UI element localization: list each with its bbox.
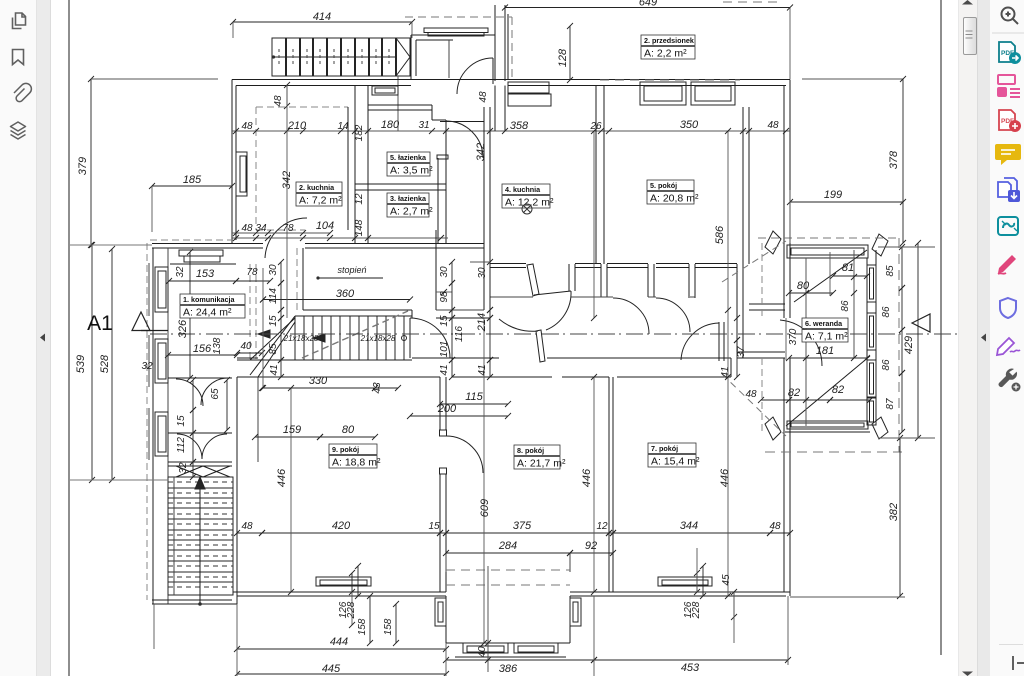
- svg-text:228: 228: [691, 601, 702, 619]
- svg-text:98: 98: [439, 291, 450, 303]
- vertical dim x484 609: [483, 318, 485, 643]
- west wing bottom wall: [152, 599, 232, 601]
- corridor top wall band y243-248: [152, 243, 263, 245]
- vertical ext x263: [262, 268, 264, 388]
- svg-text:86: 86: [840, 300, 851, 312]
- svg-text:2. kuchnia: 2. kuchnia: [299, 183, 335, 192]
- kuchnia2 door arc: [265, 218, 307, 258]
- roof overhang dash right/bottom: [765, 451, 902, 453]
- komunikacja top boundary y264: [170, 263, 236, 265]
- west window 2: [155, 339, 168, 383]
- svg-text:586: 586: [714, 225, 726, 244]
- svg-text:228: 228: [346, 601, 357, 619]
- svg-text:34: 34: [255, 223, 267, 234]
- west wing top wall overhang dash: [150, 239, 232, 241]
- ext 382 bottom: [790, 596, 905, 598]
- kuchnia2 dashed finish rect: [256, 106, 348, 108]
- svg-text:15: 15: [176, 415, 187, 427]
- kuchnia4 window top wall: [508, 82, 549, 93]
- dim 181: [789, 357, 867, 359]
- panel bottom divider: [999, 644, 1023, 645]
- room label komunikacja: [180, 294, 245, 319]
- ext 378 top: [802, 78, 903, 80]
- stair walk line + arrow: [199, 477, 201, 604]
- svg-text:41: 41: [269, 364, 280, 375]
- komunikacja lower right wall: [236, 377, 238, 604]
- svg-text:210: 210: [287, 120, 307, 132]
- svg-text:539: 539: [75, 355, 87, 373]
- pane collapse arrow left: [39, 333, 47, 342]
- svg-text:82: 82: [832, 384, 844, 396]
- svg-text:344: 344: [680, 520, 698, 532]
- bottom dim string y533: [237, 532, 262, 534]
- dim 126/228 verticals left: [351, 573, 353, 592]
- svg-text:A: 2,2 m²: A: 2,2 m²: [644, 48, 687, 60]
- room label kuchnia4: [502, 184, 554, 209]
- svg-text:181: 181: [816, 345, 834, 357]
- drawing frame right border: [940, 0, 942, 655]
- corridor soffit line y297: [490, 296, 533, 298]
- svg-text:48: 48: [241, 121, 253, 132]
- svg-text:21x18x28: 21x18x28: [360, 334, 396, 343]
- svg-text:104: 104: [316, 220, 334, 232]
- svg-text:48: 48: [745, 389, 757, 400]
- dim col x190 326: [189, 252, 191, 378]
- svg-text:114: 114: [268, 288, 279, 304]
- svg-text:3. łazienka: 3. łazienka: [390, 194, 427, 203]
- vertical dim column x281 corridor-left: [280, 262, 282, 283]
- svg-text:342: 342: [475, 143, 487, 161]
- svg-text:199: 199: [824, 189, 842, 201]
- icon certificates pen: [997, 338, 1020, 355]
- dim col x227 65: [226, 380, 228, 430]
- window room9 bottom: [316, 577, 371, 586]
- icon create pdf: [999, 110, 1021, 132]
- svg-text:649: 649: [639, 0, 657, 9]
- wing inner sill wall: [168, 461, 232, 463]
- lamp symbol kuchnia4: [522, 204, 532, 214]
- svg-text:528: 528: [99, 354, 111, 373]
- svg-text:5. pokój: 5. pokój: [650, 181, 677, 190]
- vertical scrollbar track: [958, 0, 977, 676]
- svg-text:446: 446: [276, 468, 288, 487]
- svg-text:30: 30: [439, 266, 450, 278]
- komunikacja right wall: [296, 248, 298, 310]
- kuchnia4 left wall: [483, 107, 485, 310]
- svg-text:48: 48: [241, 521, 253, 532]
- french door pair upper: [168, 377, 232, 379]
- door arc weranda: [780, 320, 822, 366]
- dim string y233 kuchnia bottom: [232, 232, 330, 234]
- weranda floor diagonals: [794, 250, 867, 302]
- svg-text:15: 15: [439, 315, 450, 327]
- porch inner partition line: [448, 40, 450, 78]
- wall room8/room7: [608, 377, 610, 592]
- wall pokoj5 right / corridor: [742, 107, 744, 352]
- landing cross marks: [176, 466, 203, 477]
- svg-text:138: 138: [212, 337, 223, 354]
- svg-text:342: 342: [281, 171, 293, 189]
- icon open pane bottom: [1013, 656, 1024, 670]
- svg-text:26: 26: [589, 121, 602, 132]
- svg-text:182: 182: [354, 124, 365, 141]
- svg-text:A: 3,5 m²: A: 3,5 m²: [390, 165, 433, 177]
- svg-text:30: 30: [268, 264, 279, 276]
- dim 444: [237, 648, 446, 650]
- svg-text:8. pokój: 8. pokój: [517, 446, 544, 455]
- icon tools wrench: [999, 369, 1021, 392]
- dim line 539: [91, 245, 93, 480]
- window room7 bottom: [658, 577, 712, 586]
- svg-text:445: 445: [322, 663, 341, 675]
- svg-text:148: 148: [354, 219, 365, 236]
- wall przedsionek left x495: [494, 86, 496, 132]
- svg-text:87: 87: [885, 398, 896, 410]
- svg-text:446: 446: [581, 468, 593, 487]
- svg-text:116: 116: [454, 326, 465, 342]
- door arc room9: [499, 319, 538, 331]
- dim line y388 330: [262, 387, 375, 389]
- weranda interior dims: [789, 292, 833, 294]
- exterior staircase top (hatched): [272, 38, 410, 76]
- section triangle left: [132, 312, 150, 331]
- main building top wall: [232, 79, 790, 81]
- interior stair treads: [294, 316, 296, 360]
- dim 40 vertical bay: [487, 566, 489, 672]
- door kuchnia4 leaf + arc: [527, 264, 539, 296]
- drawing frame left border: [68, 0, 70, 676]
- kuchnia2 bottom wall dashed: [256, 229, 305, 231]
- weranda bottom window band: [787, 421, 868, 429]
- main building left wall upper: [231, 80, 233, 244]
- room label przedsionek: [641, 35, 695, 60]
- scrollbar down arrow remnant: [958, 670, 976, 676]
- door jambs y264-297: [568, 264, 570, 291]
- svg-text:40: 40: [477, 646, 488, 658]
- room label lazienka3: [387, 193, 433, 218]
- dim 199: [790, 201, 903, 203]
- svg-text:86: 86: [881, 306, 892, 318]
- corridor top wall mid: [303, 309, 323, 311]
- svg-text:444: 444: [330, 636, 348, 648]
- svg-text:92: 92: [585, 540, 597, 552]
- svg-text:32: 32: [175, 266, 186, 278]
- svg-text:2. przedsionek: 2. przedsionek: [644, 36, 694, 45]
- walking line arrows on section axis: [258, 330, 270, 338]
- ext line 539 bottom: [70, 479, 168, 481]
- svg-text:A: 15,4 m²: A: 15,4 m²: [651, 456, 700, 468]
- stair dashed cut diagonal: [302, 311, 408, 358]
- roof overhang dashes above porch: [405, 16, 512, 18]
- svg-text:A: 21,7 m²: A: 21,7 m²: [517, 458, 566, 470]
- svg-text:128: 128: [557, 48, 569, 67]
- svg-text:32: 32: [178, 462, 189, 474]
- pokoj5 windows top wall: [640, 82, 686, 105]
- vertical dim x594 446/609: [593, 131, 595, 318]
- icon search/zoom: [1002, 8, 1019, 25]
- door arc pokoj5 b: [656, 298, 690, 332]
- french door pair lower: [168, 432, 232, 434]
- room label pokoj9: [329, 444, 381, 469]
- vertical dim x287 48(top): [286, 85, 288, 106]
- svg-text:386: 386: [499, 663, 518, 675]
- icon scan-ocr: [998, 217, 1018, 235]
- svg-text:12: 12: [596, 521, 608, 532]
- corridor bottom wall right: [730, 358, 732, 377]
- right tools panel: [990, 0, 1024, 676]
- svg-text:31: 31: [418, 120, 429, 131]
- svg-text:stopień: stopień: [337, 265, 366, 275]
- dim 453: [594, 659, 788, 661]
- section triangle right: [912, 314, 930, 332]
- svg-text:153: 153: [196, 268, 215, 280]
- stair upper flight top edge: [323, 309, 412, 311]
- ext line 539 top: [70, 244, 152, 246]
- dim 382: [899, 438, 901, 596]
- roof overhang dash top right: [723, 1, 783, 3]
- dim 126/228 verticals right: [696, 573, 698, 592]
- stopien underline: [318, 277, 383, 279]
- window W left upper wall: [236, 152, 247, 196]
- dim y553 284/92: [446, 552, 570, 554]
- svg-text:37: 37: [736, 346, 747, 358]
- centre bay (terrace) walls: [445, 596, 447, 643]
- svg-text:370: 370: [788, 328, 799, 345]
- weranda corner pillar top-right: [872, 234, 888, 256]
- interior dim string y131 ticks: [233, 128, 239, 134]
- svg-text:15: 15: [428, 521, 440, 532]
- stairs right edge extension: [397, 76, 399, 131]
- room label kuchnia2: [296, 182, 342, 207]
- svg-text:214: 214: [476, 313, 488, 332]
- wall kuchnia4 / pokoj5: [595, 86, 597, 265]
- wall kuchnia2 / lazienka3: [347, 107, 349, 230]
- vertical dim x728 586/446: [727, 131, 729, 596]
- dim 386: [446, 659, 594, 661]
- door at stair foot: [409, 318, 411, 358]
- svg-text:609: 609: [479, 499, 491, 517]
- svg-text:A1: A1: [87, 312, 113, 335]
- svg-text:4. kuchnia: 4. kuchnia: [505, 185, 541, 194]
- west window 3: [155, 412, 168, 456]
- icon attachments: [14, 83, 31, 101]
- dim 45 vertical bottom: [733, 592, 735, 617]
- dim line y238: [232, 237, 448, 239]
- corridor top wall right of stair: [411, 310, 413, 318]
- svg-text:21x18x28: 21x18x28: [283, 334, 319, 343]
- icon organize pages: [998, 75, 1020, 97]
- stair direction arrow top stairs: [396, 38, 410, 76]
- svg-text:6. weranda: 6. weranda: [805, 319, 843, 328]
- room label lazienka5: [387, 152, 433, 177]
- svg-text:A: 20,8 m²: A: 20,8 m²: [650, 193, 699, 205]
- corridor right top wall: [749, 303, 785, 305]
- svg-text:14: 14: [337, 121, 349, 132]
- svg-text:429: 429: [903, 336, 915, 354]
- exterior staircase bottom (hatched): [168, 477, 233, 595]
- divider: [992, 32, 1024, 34]
- bottom wall room9: [233, 591, 446, 593]
- room label pokoj5: [647, 180, 699, 205]
- svg-text:80: 80: [797, 280, 810, 292]
- weranda top window band: [787, 245, 868, 258]
- svg-text:200: 200: [437, 403, 457, 415]
- porch/przedsionek wall: [504, 5, 506, 81]
- svg-text:414: 414: [313, 11, 331, 23]
- vertical dim x291 446 left: [290, 388, 292, 592]
- svg-text:112: 112: [176, 437, 187, 453]
- dim 429: [917, 243, 919, 438]
- svg-text:326: 326: [177, 319, 189, 338]
- roof hip dashed diagonals: [722, 241, 786, 282]
- door arc room9/room8: [446, 436, 483, 473]
- section line A-A dash-dot: [150, 333, 167, 335]
- svg-text:86: 86: [881, 359, 892, 371]
- dim line 379: [90, 79, 92, 245]
- svg-text:185: 185: [183, 174, 202, 186]
- vertical dim x490 214: [489, 262, 491, 310]
- dim line 185: [152, 185, 232, 187]
- svg-text:158: 158: [383, 618, 394, 635]
- room label pokoj7: [648, 443, 700, 468]
- svg-text:A: 24,4 m²: A: 24,4 m²: [183, 307, 232, 319]
- centre bay bottom windows: [463, 643, 508, 653]
- svg-text:7. pokój: 7. pokój: [651, 444, 678, 453]
- svg-text:284: 284: [498, 540, 517, 552]
- svg-text:82: 82: [788, 387, 800, 399]
- svg-text:A: 18,8 m²: A: 18,8 m²: [332, 457, 381, 469]
- svg-text:48: 48: [769, 521, 781, 532]
- dim 378: [902, 79, 904, 243]
- weranda inner dim lines: [805, 258, 807, 426]
- svg-text:32: 32: [141, 361, 153, 372]
- svg-text:48: 48: [273, 95, 284, 107]
- svg-text:360: 360: [336, 288, 355, 300]
- porch top window: [424, 28, 488, 33]
- dim line y292 98/top corridor: [436, 291, 452, 293]
- svg-text:379: 379: [77, 157, 89, 175]
- svg-text:378: 378: [888, 150, 900, 169]
- wall room9/room8 with door: [439, 377, 441, 430]
- dim col x193 15/112/32: [192, 380, 194, 410]
- weranda corner pillar bottom-left: [765, 417, 781, 440]
- komunikacja shelf symbol: [179, 250, 223, 256]
- entrance porch walls: [410, 35, 412, 80]
- dim line y353 40: [237, 352, 262, 354]
- top wall inner line / dim line y131: [232, 130, 790, 132]
- svg-text:101: 101: [439, 341, 450, 358]
- svg-text:78: 78: [246, 267, 258, 278]
- pane collapse arrow right: [980, 333, 988, 342]
- main building right wall: [789, 80, 791, 319]
- collapsed pane strip right: [977, 0, 991, 676]
- ext right wall top: [789, 8, 791, 80]
- svg-text:85: 85: [268, 343, 279, 355]
- dim line y281 153/78: [169, 280, 236, 282]
- bottom wall room7: [570, 591, 790, 593]
- svg-text:158: 158: [357, 618, 368, 635]
- dashes over top windows: [600, 79, 740, 81]
- dim line 414: [233, 21, 412, 23]
- scrollbar thumb: [963, 17, 977, 55]
- dim line y437 159/80: [255, 436, 320, 438]
- centre bay dashed ceiling lines: [446, 569, 570, 571]
- svg-text:1. komunikacja: 1. komunikacja: [183, 295, 236, 304]
- corridor bottom wall: [237, 359, 295, 361]
- svg-text:48: 48: [241, 223, 253, 234]
- svg-text:48: 48: [767, 120, 779, 131]
- corridor right bottom wall: [737, 351, 785, 353]
- extension top-left: [91, 78, 218, 80]
- west window 1: [155, 267, 168, 312]
- icon bookmarks: [13, 50, 24, 65]
- svg-text:65: 65: [210, 388, 221, 400]
- stair inner edge line: [173, 477, 175, 595]
- ext 370: [785, 318, 787, 360]
- svg-text:358: 358: [510, 120, 529, 132]
- left tool sidebar: [0, 0, 37, 676]
- svg-text:41: 41: [477, 364, 488, 375]
- vertical dim x737 37/41: [736, 318, 738, 340]
- svg-text:382: 382: [888, 503, 900, 521]
- icon combine files: [998, 178, 1020, 202]
- svg-text:159: 159: [283, 424, 301, 436]
- vertical dim column x452 corridor-right: [451, 262, 453, 283]
- svg-text:A: 7,1 m²: A: 7,1 m²: [805, 331, 848, 343]
- icon fill-sign: [998, 255, 1016, 274]
- lazienka 5/3 partition: [355, 183, 446, 185]
- icon page thumbnails: [13, 13, 27, 29]
- stair lower diagonals: [250, 316, 295, 375]
- svg-text:85: 85: [885, 265, 896, 277]
- weranda left boundary dashes: [761, 243, 763, 318]
- door room7 leaf + arc: [718, 322, 720, 361]
- svg-text:A: 7,2 m²: A: 7,2 m²: [299, 195, 342, 207]
- dim line y355 156: [168, 354, 237, 356]
- entrance door arc: [457, 58, 493, 94]
- rooms south wall y264 segments: [490, 263, 526, 265]
- svg-text:12: 12: [354, 193, 365, 205]
- dim 445: [237, 673, 446, 675]
- icon layers: [11, 122, 26, 139]
- svg-text:115: 115: [465, 391, 483, 403]
- bathroom door arc: [446, 121, 483, 158]
- dim line 128 vertical: [569, 26, 571, 80]
- bathroom right wall: [437, 158, 439, 244]
- svg-text:78: 78: [282, 223, 294, 234]
- weranda corner pillar bottom-right: [872, 417, 888, 439]
- svg-text:41: 41: [439, 364, 450, 375]
- dim line 649: [505, 7, 790, 9]
- svg-text:5. łazienka: 5. łazienka: [390, 153, 427, 162]
- lazienka top wall step: [368, 104, 432, 106]
- porch right wall outer: [494, 5, 496, 81]
- icon protect shield: [1000, 298, 1016, 318]
- svg-text:80: 80: [342, 424, 355, 436]
- collapsed pane strip: [37, 0, 51, 676]
- svg-text:350: 350: [680, 119, 699, 131]
- svg-text:156: 156: [193, 343, 212, 355]
- svg-text:45: 45: [721, 574, 732, 586]
- svg-text:9. pokój: 9. pokój: [332, 445, 359, 454]
- dim 158 verticals: [369, 596, 371, 643]
- room label weranda: [802, 318, 848, 343]
- lazienka window top wall: [372, 86, 398, 95]
- svg-text:330: 330: [309, 375, 328, 387]
- svg-text:15: 15: [268, 315, 279, 327]
- svg-text:375: 375: [513, 520, 532, 532]
- icon export pdf: [999, 42, 1021, 64]
